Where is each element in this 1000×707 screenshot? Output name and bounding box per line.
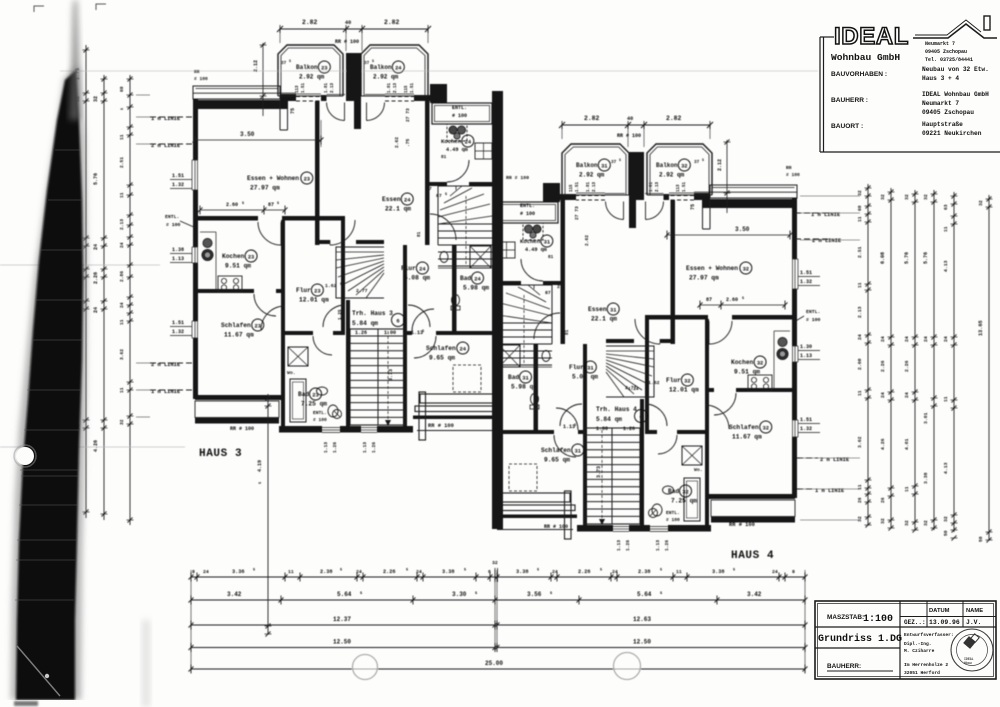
- svg-text:RR # 100: RR # 100: [335, 39, 359, 45]
- svg-text:5: 5: [619, 159, 621, 163]
- svg-text:81: 81: [417, 231, 422, 237]
- svg-text:Wbau: Wbau: [964, 661, 972, 665]
- svg-text:RR # 100: RR # 100: [729, 522, 755, 528]
- svg-text:RR # 100: RR # 100: [428, 423, 454, 429]
- svg-text:115: 115: [570, 184, 574, 192]
- svg-text:RR # 100: RR # 100: [544, 524, 568, 530]
- svg-text:87: 87: [706, 297, 712, 303]
- svg-text:24: 24: [465, 140, 472, 146]
- svg-text:3.30: 3.30: [452, 591, 467, 598]
- svg-text:Bad: Bad: [508, 374, 519, 381]
- svg-text:09405 Zschopau: 09405 Zschopau: [922, 109, 974, 116]
- svg-text:1.00: 1.00: [596, 426, 608, 432]
- svg-text:# 100: # 100: [452, 113, 467, 119]
- svg-text:3.73: 3.73: [388, 369, 394, 381]
- svg-text:2.82: 2.82: [584, 115, 600, 122]
- svg-text:27: 27: [557, 284, 563, 290]
- svg-text:3.38: 3.38: [516, 569, 528, 575]
- svg-text:81: 81: [548, 255, 554, 260]
- svg-text:IDEAL: IDEAL: [834, 23, 909, 50]
- svg-text:12.50: 12.50: [633, 639, 651, 646]
- svg-text:9.51 qm: 9.51 qm: [225, 263, 251, 270]
- svg-text:.75: .75: [405, 138, 411, 147]
- svg-text:1.30: 1.30: [800, 344, 812, 350]
- svg-text:32: 32: [763, 426, 769, 432]
- svg-text:27.97 qm: 27.97 qm: [689, 275, 719, 282]
- svg-text:32: 32: [119, 419, 125, 425]
- svg-text:37: 37: [281, 61, 287, 66]
- svg-text:5: 5: [277, 202, 279, 206]
- svg-text:# 100: # 100: [194, 76, 208, 82]
- svg-text:1.13: 1.13: [655, 540, 661, 551]
- svg-text:12.37: 12.37: [333, 616, 351, 623]
- svg-text:1.32: 1.32: [172, 182, 184, 188]
- svg-text:87: 87: [268, 202, 274, 208]
- svg-text:2.92 qm: 2.92 qm: [299, 74, 325, 81]
- svg-text:BAUORT :: BAUORT :: [831, 123, 863, 130]
- svg-text:31: 31: [575, 449, 581, 455]
- svg-text:7.25 qm: 7.25 qm: [301, 401, 327, 408]
- svg-text:Wo.: Wo.: [287, 370, 296, 376]
- svg-text:1.13: 1.13: [323, 442, 329, 453]
- svg-text:Dipl.-Ing.: Dipl.-Ing.: [904, 641, 932, 647]
- svg-text:5.76: 5.76: [904, 252, 910, 264]
- svg-text:Flur: Flur: [296, 287, 311, 294]
- svg-text:1.26: 1.26: [625, 540, 631, 551]
- svg-text:5.98 qm: 5.98 qm: [463, 285, 489, 292]
- svg-text:1.13: 1.13: [172, 256, 184, 262]
- svg-text:ENTL.: ENTL.: [806, 309, 820, 315]
- svg-text:Schlafen: Schlafen: [426, 345, 456, 352]
- svg-text:5: 5: [372, 60, 374, 64]
- svg-text:2.51: 2.51: [857, 246, 863, 258]
- svg-text:1.26: 1.26: [664, 540, 670, 551]
- svg-text:Trh. Haus 3: Trh. Haus 3: [352, 310, 393, 317]
- svg-text:Bad: Bad: [298, 391, 309, 398]
- svg-text:3.38: 3.38: [712, 569, 724, 575]
- svg-text:13.09.96: 13.09.96: [929, 619, 960, 626]
- svg-text:5: 5: [464, 569, 466, 573]
- svg-text:24: 24: [416, 569, 422, 575]
- svg-text:2.13: 2.13: [394, 82, 398, 93]
- svg-text:24: 24: [857, 334, 863, 340]
- svg-text:60: 60: [857, 205, 863, 211]
- svg-text:4.26: 4.26: [93, 440, 99, 452]
- svg-text:RR: RR: [786, 165, 792, 171]
- svg-text:6: 6: [488, 569, 491, 575]
- svg-text:75: 75: [690, 204, 696, 210]
- svg-text:Flur: Flur: [569, 364, 584, 371]
- svg-text:24: 24: [460, 347, 467, 353]
- svg-text:1.51: 1.51: [800, 270, 812, 276]
- svg-text:# 100: # 100: [786, 172, 800, 178]
- svg-text:5.76: 5.76: [923, 252, 929, 264]
- svg-text:1.13: 1.13: [362, 442, 368, 453]
- svg-text:3.73: 3.73: [596, 466, 602, 478]
- svg-text:Essen: Essen: [588, 306, 607, 313]
- svg-text:23: 23: [248, 255, 254, 261]
- svg-text:1.51: 1.51: [683, 181, 687, 192]
- svg-text:12.63: 12.63: [633, 616, 651, 623]
- svg-text:9.65 qm: 9.65 qm: [429, 355, 455, 362]
- svg-text:32: 32: [757, 361, 763, 367]
- svg-text:3.62: 3.62: [857, 436, 863, 448]
- svg-text:2.92 qm: 2.92 qm: [579, 172, 605, 179]
- svg-text:32: 32: [492, 560, 498, 566]
- svg-text:Hauptstraße: Hauptstraße: [922, 121, 963, 128]
- svg-text:Schlafen: Schlafen: [221, 322, 251, 329]
- svg-text:RR # 100: RR # 100: [230, 426, 254, 432]
- svg-text:2.92 qm: 2.92 qm: [373, 74, 399, 81]
- svg-text:2.26: 2.26: [578, 569, 590, 575]
- svg-text:27.97 qm: 27.97 qm: [250, 185, 280, 192]
- svg-text:5: 5: [742, 297, 744, 301]
- svg-text:24: 24: [203, 569, 209, 575]
- svg-text:BAUVORHABEN :: BAUVORHABEN :: [831, 71, 887, 78]
- svg-text:5.64: 5.64: [337, 591, 352, 598]
- svg-text:3.01: 3.01: [923, 412, 929, 424]
- svg-text:2.13: 2.13: [331, 82, 335, 93]
- svg-text:6.08: 6.08: [880, 252, 886, 264]
- svg-text:6: 6: [396, 319, 399, 325]
- svg-text:32: 32: [93, 96, 99, 102]
- svg-text:32: 32: [904, 520, 910, 526]
- svg-text:# 100: # 100: [166, 222, 181, 228]
- svg-text:2.82: 2.82: [666, 115, 682, 122]
- svg-text:2.60: 2.60: [226, 202, 238, 208]
- svg-text:1.51: 1.51: [800, 417, 812, 423]
- svg-text:22.1 qm: 22.1 qm: [385, 206, 411, 213]
- svg-text:32: 32: [880, 194, 886, 200]
- svg-text:75: 75: [290, 108, 296, 114]
- svg-text:31: 31: [601, 164, 607, 170]
- svg-text:2.38: 2.38: [320, 569, 332, 575]
- svg-text:Entwurfsverfasser:: Entwurfsverfasser:: [904, 632, 954, 638]
- svg-text:Balkon: Balkon: [656, 162, 678, 169]
- svg-text:1.13: 1.13: [800, 353, 812, 359]
- svg-text:ENTL.: ENTL.: [520, 203, 535, 209]
- svg-text:11: 11: [119, 319, 125, 325]
- svg-text:11: 11: [857, 282, 863, 288]
- svg-text:Trh. Haus 4: Trh. Haus 4: [596, 406, 637, 413]
- svg-text:RR: RR: [194, 69, 200, 75]
- svg-text:31: 31: [544, 240, 550, 246]
- svg-text:24: 24: [404, 198, 411, 204]
- svg-text:5: 5: [702, 159, 704, 163]
- svg-text:2.62: 2.62: [584, 235, 590, 246]
- svg-text:Balkon: Balkon: [576, 162, 598, 169]
- svg-text:32: 32: [743, 267, 749, 273]
- svg-text:1.51: 1.51: [411, 82, 415, 93]
- svg-text:4.49 qm: 4.49 qm: [446, 147, 468, 153]
- svg-text:11: 11: [119, 387, 125, 393]
- svg-text:Flur: Flur: [401, 265, 416, 272]
- svg-text:50: 50: [978, 536, 984, 542]
- svg-text:24: 24: [474, 277, 481, 283]
- svg-text:5: 5: [289, 60, 291, 64]
- svg-text:2.13: 2.13: [593, 181, 597, 192]
- svg-text:1.26: 1.26: [332, 442, 338, 453]
- svg-text:23: 23: [314, 289, 320, 295]
- svg-text:26: 26: [880, 497, 886, 503]
- svg-text:4.13: 4.13: [943, 462, 949, 474]
- svg-text:32: 32: [923, 520, 929, 526]
- svg-text:ENTL.: ENTL.: [313, 410, 327, 416]
- svg-text:1.32: 1.32: [800, 279, 812, 285]
- svg-text:Wohnbau GmbH: Wohnbau GmbH: [831, 52, 900, 63]
- svg-text:2.82: 2.82: [384, 19, 400, 26]
- svg-text:11: 11: [119, 192, 125, 198]
- svg-text:Grundriss 1.DG: Grundriss 1.DG: [818, 633, 902, 645]
- svg-text:Essen + Wohnen: Essen + Wohnen: [686, 265, 738, 272]
- svg-text:ENTL.: ENTL.: [452, 105, 467, 111]
- svg-text:26: 26: [857, 497, 863, 503]
- svg-text:Kochen: Kochen: [520, 238, 541, 245]
- svg-text:1.01: 1.01: [650, 181, 654, 192]
- svg-text:5: 5: [340, 283, 342, 287]
- svg-text:24: 24: [772, 569, 778, 575]
- svg-text:3.36: 3.36: [232, 569, 244, 575]
- svg-text:1.01: 1.01: [325, 82, 329, 93]
- svg-text:22.1 qm: 22.1 qm: [591, 316, 617, 323]
- svg-text:3.38: 3.38: [442, 569, 454, 575]
- svg-text:ENTL.: ENTL.: [666, 510, 680, 516]
- svg-text:8: 8: [792, 569, 795, 575]
- svg-text:4.19: 4.19: [257, 460, 263, 472]
- svg-text:# 100: # 100: [666, 517, 680, 523]
- svg-text:5.98 qm: 5.98 qm: [511, 384, 537, 391]
- svg-text:2.38: 2.38: [638, 569, 650, 575]
- svg-text:5.64: 5.64: [637, 591, 652, 598]
- svg-text:2.60: 2.60: [857, 358, 863, 370]
- svg-text:2.26: 2.26: [880, 360, 886, 372]
- svg-text:HAUS 3: HAUS 3: [199, 448, 242, 460]
- svg-text:5: 5: [600, 569, 602, 573]
- svg-text:3.62: 3.62: [119, 349, 125, 360]
- svg-text:Kochen: Kochen: [731, 359, 754, 366]
- svg-text:1.62: 1.62: [325, 283, 337, 289]
- svg-text:GEZ..:: GEZ..:: [904, 619, 926, 626]
- svg-text:5: 5: [340, 569, 342, 573]
- svg-text:1.32: 1.32: [800, 426, 812, 432]
- svg-text:24: 24: [419, 267, 426, 273]
- svg-text:1.62: 1.62: [648, 380, 660, 386]
- svg-text:1.25: 1.25: [338, 309, 343, 320]
- svg-text:2.13: 2.13: [656, 181, 660, 192]
- svg-text:4.13: 4.13: [943, 260, 949, 272]
- svg-text:5.84 qm: 5.84 qm: [596, 416, 622, 423]
- svg-text:24: 24: [356, 569, 362, 575]
- svg-text:3.42: 3.42: [227, 591, 242, 598]
- svg-text:24: 24: [923, 336, 929, 342]
- svg-text:11: 11: [288, 569, 294, 575]
- svg-text:11: 11: [857, 390, 863, 396]
- svg-text:24: 24: [880, 336, 886, 342]
- svg-text:31: 31: [610, 308, 616, 314]
- svg-text:11: 11: [857, 216, 863, 222]
- svg-text:12.01 qm: 12.01 qm: [299, 297, 329, 304]
- svg-text:23: 23: [255, 324, 261, 330]
- svg-text:2.12: 2.12: [717, 159, 723, 171]
- svg-text:5.08 qm: 5.08 qm: [572, 374, 598, 381]
- svg-text:1.51: 1.51: [576, 181, 580, 192]
- svg-text:32051 Herford: 32051 Herford: [904, 670, 940, 676]
- svg-text:24: 24: [904, 392, 910, 398]
- svg-text:12.50: 12.50: [333, 639, 351, 646]
- svg-text:Wo.: Wo.: [694, 467, 703, 473]
- svg-text:5: 5: [660, 569, 662, 573]
- svg-text:IDEAL Wohnbau GmbH: IDEAL Wohnbau GmbH: [922, 91, 989, 98]
- svg-text:27 73: 27 73: [405, 108, 411, 122]
- svg-text:24: 24: [93, 307, 99, 313]
- svg-text:2.26: 2.26: [383, 569, 395, 575]
- svg-text:Balkon: Balkon: [296, 64, 318, 71]
- svg-text:NAME: NAME: [966, 608, 983, 614]
- svg-text:5.76: 5.76: [93, 173, 99, 185]
- svg-text:31: 31: [522, 376, 528, 382]
- svg-text:5.84 qm: 5.84 qm: [352, 320, 378, 327]
- svg-text:1.51: 1.51: [172, 320, 184, 326]
- svg-text:9.51 qm: 9.51 qm: [734, 369, 760, 376]
- svg-text:37: 37: [694, 160, 700, 165]
- svg-text:5: 5: [259, 482, 263, 484]
- svg-text:5: 5: [242, 202, 244, 206]
- svg-text:40: 40: [627, 116, 633, 122]
- svg-text:J.V.: J.V.: [966, 619, 981, 626]
- svg-text:MASZSTAB:: MASZSTAB:: [827, 614, 864, 621]
- svg-text:8: 8: [192, 569, 195, 575]
- svg-text:Neubau von 32 Etw.: Neubau von 32 Etw.: [922, 66, 989, 73]
- svg-text:5: 5: [537, 569, 539, 573]
- svg-text:32: 32: [684, 379, 690, 385]
- svg-text:50: 50: [943, 530, 949, 536]
- svg-text:2.60: 2.60: [726, 297, 738, 303]
- svg-text:2.62: 2.62: [394, 137, 400, 148]
- svg-text:37: 37: [364, 61, 370, 66]
- svg-text:4.49 qm: 4.49 qm: [525, 247, 547, 253]
- svg-text:37: 37: [611, 160, 617, 165]
- svg-text:32: 32: [857, 516, 863, 522]
- svg-text:23: 23: [304, 177, 310, 183]
- svg-text:BAUHERR :: BAUHERR :: [831, 97, 868, 104]
- svg-text:HAUS 4: HAUS 4: [731, 550, 774, 562]
- svg-text:09221 Neukirchen: 09221 Neukirchen: [922, 130, 982, 137]
- svg-text:BAUHERR:: BAUHERR:: [827, 663, 861, 670]
- svg-text:1.26: 1.26: [371, 442, 377, 453]
- svg-text:24: 24: [904, 336, 910, 342]
- svg-text:4.01: 4.01: [904, 438, 910, 450]
- svg-text:Neumarkt 7: Neumarkt 7: [925, 41, 955, 47]
- svg-text:63: 63: [943, 204, 949, 210]
- svg-text:32: 32: [682, 490, 688, 496]
- svg-text:5.08 qm: 5.08 qm: [404, 275, 430, 282]
- svg-text:5: 5: [733, 569, 735, 573]
- svg-text:Schlafen: Schlafen: [729, 424, 759, 431]
- svg-text:81: 81: [441, 155, 447, 160]
- svg-text:RR # 100: RR # 100: [617, 133, 641, 139]
- svg-text:24: 24: [552, 569, 558, 575]
- svg-text:11.67 qm: 11.67 qm: [224, 332, 254, 339]
- svg-text:3.50: 3.50: [735, 226, 750, 233]
- svg-text:RR # 100: RR # 100: [506, 175, 529, 181]
- svg-text:11.67 qm: 11.67 qm: [732, 434, 762, 441]
- svg-text:32: 32: [943, 516, 949, 522]
- svg-text:1.01: 1.01: [587, 181, 591, 192]
- svg-text:DATUM: DATUM: [929, 608, 950, 614]
- svg-text:ENTL.: ENTL.: [165, 214, 179, 220]
- svg-text:Bad: Bad: [460, 275, 471, 282]
- svg-text:2.77: 2.77: [356, 288, 368, 294]
- svg-text:3.42: 3.42: [747, 591, 762, 598]
- svg-text:2.13: 2.13: [119, 219, 125, 230]
- svg-text:32: 32: [857, 190, 863, 196]
- svg-text:1:100: 1:100: [863, 614, 893, 625]
- svg-text:32: 32: [978, 200, 984, 206]
- svg-text:5: 5: [406, 569, 408, 573]
- svg-text:11: 11: [943, 396, 949, 402]
- svg-text:32: 32: [923, 194, 929, 200]
- svg-text:3.50: 3.50: [240, 131, 255, 138]
- svg-text:1.24: 1.24: [628, 387, 639, 392]
- svg-text:2.92 qm: 2.92 qm: [659, 172, 685, 179]
- svg-text:Essen + Wohnen: Essen + Wohnen: [247, 175, 299, 182]
- svg-text:Schlafen: Schlafen: [541, 447, 571, 454]
- svg-text:13.65: 13.65: [978, 320, 984, 336]
- svg-text:2.13: 2.13: [857, 306, 863, 318]
- svg-text:32: 32: [681, 164, 687, 170]
- svg-text:1.32: 1.32: [172, 329, 184, 335]
- svg-text:11: 11: [943, 226, 949, 232]
- svg-text:2.86: 2.86: [119, 271, 125, 282]
- svg-text:2.82: 2.82: [302, 19, 318, 26]
- svg-text:24: 24: [93, 244, 99, 250]
- svg-text:Tel. 03725/84441: Tel. 03725/84441: [925, 57, 973, 63]
- svg-text:1.38: 1.38: [172, 247, 184, 253]
- svg-text:5: 5: [121, 108, 125, 110]
- svg-text:31: 31: [587, 366, 593, 372]
- svg-text:Haus 3 + 4: Haus 3 + 4: [922, 75, 959, 82]
- svg-text:24: 24: [880, 392, 886, 398]
- svg-text:113: 113: [296, 85, 300, 93]
- svg-text:Balkon: Balkon: [370, 64, 392, 71]
- svg-text:2.26: 2.26: [93, 272, 99, 284]
- svg-text:1.26: 1.26: [623, 426, 635, 432]
- svg-text:1.26: 1.26: [355, 330, 367, 336]
- svg-text:5: 5: [445, 193, 447, 197]
- svg-text:4.26: 4.26: [880, 438, 886, 450]
- svg-text:3.56: 3.56: [527, 591, 542, 598]
- svg-text:M. Cziharre: M. Cziharre: [904, 648, 935, 654]
- svg-text:87: 87: [545, 290, 551, 296]
- svg-text:24: 24: [612, 569, 618, 575]
- svg-text:1.51: 1.51: [302, 82, 306, 93]
- svg-text:5: 5: [253, 569, 255, 573]
- svg-text:09405 Zschopau: 09405 Zschopau: [925, 49, 967, 55]
- svg-text:24: 24: [943, 336, 949, 342]
- svg-text:Im Herrenholze 2: Im Herrenholze 2: [904, 662, 948, 668]
- svg-text:9.65 qm: 9.65 qm: [544, 457, 570, 464]
- svg-text:11: 11: [904, 486, 910, 492]
- svg-text:2.12: 2.12: [253, 60, 259, 72]
- svg-text:1.51: 1.51: [172, 173, 184, 179]
- svg-text:81: 81: [565, 329, 570, 335]
- svg-text:Kochen: Kochen: [222, 253, 245, 260]
- svg-text:Neumarkt 7: Neumarkt 7: [922, 100, 959, 107]
- svg-text:3.38: 3.38: [923, 472, 929, 484]
- svg-text:1.00: 1.00: [384, 330, 396, 336]
- svg-text:12.01 qm: 12.01 qm: [669, 387, 699, 394]
- svg-text:Bad: Bad: [668, 488, 679, 495]
